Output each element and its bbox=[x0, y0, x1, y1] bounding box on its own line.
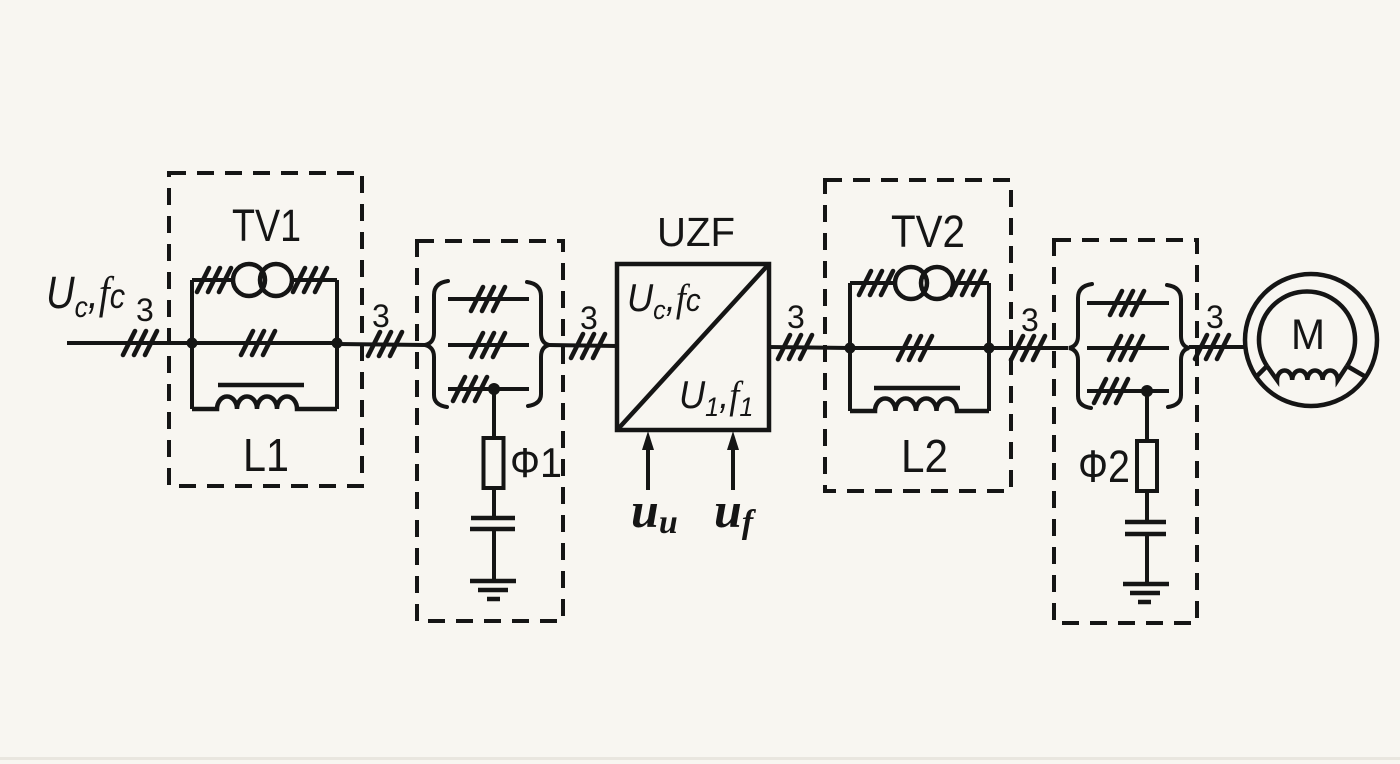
wire: F1 to UZF bbox=[549, 345, 617, 346]
control arrow uu into UZF bbox=[642, 431, 654, 490]
svg-text:TV2: TV2 bbox=[891, 206, 965, 257]
dashed enclosure TV1/L1 bbox=[169, 173, 362, 486]
slashes left of TV1 transformer bbox=[197, 268, 231, 292]
wire: capacitor to ground (F1) bbox=[492, 529, 496, 581]
connector brace left (F1) bbox=[425, 281, 448, 407]
wire: F1 bottom phase line bbox=[448, 387, 529, 391]
3-phase slashes on TV2 bus bbox=[898, 336, 932, 360]
resistor of filter F2 bbox=[1137, 441, 1157, 491]
svg-text:TV1: TV1 bbox=[232, 200, 301, 251]
wire: source to TV1 box bbox=[67, 341, 192, 345]
ground symbol (F1) bbox=[470, 581, 516, 599]
control arrow uf into UZF bbox=[727, 431, 739, 490]
3-phase slashes TV2 to F2 bbox=[1011, 336, 1045, 360]
slashes on F2 middle line bbox=[1109, 336, 1143, 360]
transformer TV1 winding circle 2 bbox=[260, 264, 292, 296]
wire: F2 middle phase line bbox=[1087, 346, 1169, 350]
wire: TV1 top branch left bbox=[192, 278, 233, 282]
wire: TV1 left vertical branch bbox=[190, 280, 194, 409]
svg-text:UZF: UZF bbox=[657, 209, 735, 255]
transformer TV1 winding circle 1 bbox=[233, 264, 265, 296]
faint scan line at bottom edge bbox=[0, 757, 1400, 760]
node right of TV1 bbox=[332, 338, 343, 349]
junction node on F2 bottom line bbox=[1141, 385, 1153, 397]
3-phase slashes on input wire bbox=[123, 331, 157, 355]
motor winding coil bbox=[1267, 366, 1347, 380]
slashes right of TV2 transformer bbox=[951, 271, 985, 295]
wire: F1 node to resistor bbox=[492, 389, 496, 438]
wire: TV2 top branch right bbox=[953, 281, 989, 285]
wire: resistor to capacitor (F2) bbox=[1145, 491, 1149, 522]
3-phase slashes TV1 to F1 bbox=[368, 332, 402, 356]
node left of TV2 bbox=[845, 343, 856, 354]
dashed enclosure TV2/L2 bbox=[825, 180, 1011, 491]
slashes on F2 bottom line bbox=[1094, 379, 1128, 403]
ground symbol (F2) bbox=[1123, 584, 1169, 602]
wire: capacitor to ground (F2) bbox=[1145, 534, 1149, 584]
wire: TV2 top branch left bbox=[850, 281, 895, 285]
motor left spoke bbox=[1256, 366, 1267, 377]
connector brace left (F2) bbox=[1069, 284, 1092, 408]
wire: TV1 to filter F1 bbox=[337, 344, 425, 345]
wire: F1 middle phase line bbox=[448, 343, 529, 347]
slashes on F1 middle line bbox=[471, 333, 505, 357]
converter block UZF bbox=[617, 264, 769, 430]
wire: F2 bottom phase line bbox=[1087, 389, 1169, 393]
inductor L2 coil bbox=[850, 399, 989, 412]
3-phase slashes on TV1 bus bbox=[241, 331, 275, 355]
wire: TV1 top branch right bbox=[292, 278, 337, 282]
3-phase slashes F2 to motor bbox=[1195, 335, 1229, 359]
motor M stator arc bbox=[1259, 291, 1355, 366]
wire: TV1 right vertical branch bbox=[335, 280, 339, 409]
inductor L1 coil bbox=[192, 396, 337, 409]
wire: UZF to TV2 bbox=[769, 347, 850, 348]
svg-text:Ф2: Ф2 bbox=[1078, 441, 1130, 492]
slashes left of TV2 transformer bbox=[859, 271, 893, 295]
svg-text:M: M bbox=[1291, 311, 1325, 359]
svg-text:3: 3 bbox=[1021, 302, 1039, 338]
wire: TV2 left vertical branch bbox=[848, 283, 852, 411]
capacitor of filter F2 bbox=[1125, 522, 1166, 534]
svg-text:L2: L2 bbox=[901, 430, 948, 482]
connector brace right (F2) bbox=[1167, 285, 1189, 407]
wire: F2 top phase line bbox=[1087, 301, 1169, 305]
motor M outer circle bbox=[1245, 274, 1377, 406]
transformer TV2 winding circle 1 bbox=[895, 267, 927, 299]
slashes on F1 bottom line bbox=[453, 377, 487, 401]
inductor L1 core line bbox=[218, 383, 304, 388]
wire: TV2 right vertical branch bbox=[987, 283, 991, 411]
wire: resistor to capacitor (F1) bbox=[492, 488, 496, 518]
svg-text:3: 3 bbox=[580, 300, 598, 336]
wire: F2 to motor bbox=[1189, 345, 1246, 349]
node left of TV1 bbox=[187, 338, 198, 349]
UZF diagonal divider bbox=[618, 265, 768, 429]
wire: TV2 to filter F2 bbox=[989, 346, 1068, 350]
connector brace right (F1) bbox=[527, 282, 549, 406]
wire: F2 node to resistor bbox=[1145, 391, 1149, 441]
inductor L2 core line bbox=[874, 386, 960, 391]
node label Uc,fc (source voltage/frequency) bbox=[46, 268, 126, 324]
svg-text:Ф1: Ф1 bbox=[510, 439, 562, 486]
svg-text:3: 3 bbox=[372, 298, 390, 334]
resistor of filter F1 bbox=[484, 438, 504, 488]
slashes on F1 top line bbox=[471, 287, 505, 311]
motor right spoke bbox=[1347, 366, 1366, 377]
svg-text:3: 3 bbox=[787, 299, 805, 335]
wire: F1 top phase line bbox=[448, 297, 529, 301]
capacitor of filter F1 bbox=[470, 518, 515, 529]
svg-text:L1: L1 bbox=[243, 429, 289, 481]
slashes right of TV1 transformer bbox=[293, 268, 327, 292]
transformer TV2 winding circle 2 bbox=[921, 267, 953, 299]
dashed enclosure filter F2 bbox=[1054, 240, 1197, 623]
svg-text:3: 3 bbox=[136, 292, 154, 328]
3-phase slashes UZF to TV2 bbox=[778, 335, 812, 359]
dashed enclosure filter F1 bbox=[417, 241, 563, 621]
node right of TV2 bbox=[984, 343, 995, 354]
junction node on F1 bottom line bbox=[488, 383, 500, 395]
svg-text:3: 3 bbox=[1206, 299, 1224, 335]
3-phase slashes F1 to UZF bbox=[571, 334, 605, 358]
slashes on F2 top line bbox=[1110, 291, 1144, 315]
wire: TV1 inner bus bbox=[192, 341, 337, 345]
wire: TV2 inner bus bbox=[850, 346, 989, 350]
